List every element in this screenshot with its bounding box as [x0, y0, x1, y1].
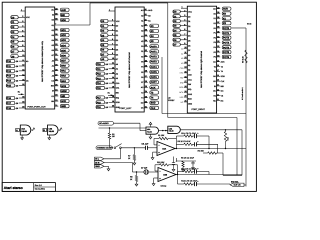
- svg-text:P18: P18: [97, 101, 102, 104]
- connector tag D7 -> U3 pin 9 (left): [101, 52, 115, 56]
- ground below R7: [133, 160, 136, 165]
- connector tag D7 -> U1 pin 9 (left): [11, 49, 25, 53]
- U2 right pin 22 stub label VS: [217, 95, 220, 97]
- input tag for gate U6A: [16, 128, 21, 132]
- svg-text:K3: K3: [141, 30, 143, 33]
- connector tag GCS <- U1 pin 25 (right): [55, 84, 69, 88]
- svg-text:A0: A0: [188, 54, 190, 57]
- svg-text:G6: G6: [51, 49, 53, 52]
- wire U1 audio out pin to net V1 (horizontal): [55, 24, 90, 26]
- svg-text:14: 14: [22, 73, 24, 76]
- connector tag D5 -> U2 pin 7 (left): [173, 33, 187, 37]
- svg-text:POT7: POT7: [151, 81, 158, 84]
- connector tag POT2 <- U3 pin 31 (right): [144, 54, 158, 58]
- connector tag SOD <- U3 pin 22 (right): [144, 100, 158, 104]
- svg-text:POT5: POT5: [151, 71, 158, 74]
- U2 left pin 15 stub label CS1: [180, 70, 188, 74]
- connector tag GRW <- U1 pin 24 (right): [55, 89, 69, 93]
- svg-text:4: 4: [112, 28, 113, 31]
- svg-text:P12: P12: [97, 73, 102, 76]
- capacitor C5 electrolytic (row D): [193, 183, 195, 185]
- connector tag D6 -> U1 pin 8 (left): [11, 44, 25, 48]
- svg-text:P2: P2: [141, 55, 143, 58]
- svg-text:19: 19: [22, 101, 24, 104]
- op-amp U4B: [158, 168, 176, 182]
- svg-text:40: 40: [145, 8, 147, 11]
- connector tag POT1 <- U2 pin 35 (right): [217, 31, 231, 35]
- svg-text:18: 18: [22, 96, 24, 99]
- junction dot U4A output: [176, 148, 177, 149]
- page border frame: [2, 2, 256, 191]
- wire net AUDIO-IN top run y=3: [90, 2, 168, 4]
- svg-text:STEREO ON-OFF: STEREO ON-OFF: [97, 147, 113, 150]
- svg-text:T4: T4: [141, 96, 143, 99]
- svg-text:4: 4: [184, 19, 185, 22]
- connector tag D4 -> U3 pin 6 (left): [101, 38, 115, 42]
- connector tag POT0 <- U3 pin 33 (right): [144, 44, 158, 48]
- svg-text:R4 30K: R4 30K: [198, 150, 205, 153]
- connector tag AUD <- U1 pin 40 (right): [55, 8, 69, 12]
- connector tag D5 -> U3 pin 7 (left): [101, 43, 115, 47]
- power arrow above gate U5A: [149, 122, 152, 127]
- svg-text:P13: P13: [7, 75, 12, 78]
- svg-text:IN R: IN R: [95, 161, 100, 164]
- resistor R12 (row D): [178, 183, 184, 185]
- svg-text:35: 35: [217, 31, 219, 34]
- row C feed from output node: [177, 172, 179, 175]
- svg-text:P17: P17: [7, 102, 12, 105]
- svg-text:01.01.2001: 01.01.2001: [35, 188, 46, 191]
- svg-text:14: 14: [185, 66, 187, 69]
- wire switch to capacitor C6: [121, 147, 145, 149]
- IC U2 body (POKEY stereo right channel): [187, 6, 216, 113]
- connector tag D6 -> U3 pin 8 (left): [101, 47, 115, 51]
- resistor R8 shunt (vertical): [136, 172, 138, 176]
- svg-text:P6: P6: [141, 76, 143, 79]
- svg-text:POT0: POT0: [151, 45, 158, 48]
- title block inner divider: [34, 186, 56, 188]
- wire C7 to op-amp U4B: [132, 171, 143, 173]
- svg-text:16: 16: [22, 83, 24, 86]
- U2 right pin 23 stub label OC: [217, 90, 220, 92]
- AND gate U6A: [20, 125, 31, 135]
- svg-text:33: 33: [217, 40, 219, 43]
- svg-text:P0: P0: [141, 45, 143, 48]
- U2 left pin 14 stub label CS0: [180, 66, 188, 70]
- junction dot at R8 tap: [136, 171, 137, 172]
- output connector tag ESD BAL: [230, 180, 244, 186]
- connector tag POT1 <- U3 pin 32 (right): [144, 49, 158, 53]
- connector tag D0 -> U2 pin 2 (left): [173, 9, 187, 13]
- connector tag P15 -> U1 pin 16 (left): [6, 83, 25, 87]
- svg-text:PORT_LEFT: PORT_LEFT: [120, 107, 133, 110]
- wire net AUDIO-IN vertical riser at x=90: [89, 3, 91, 25]
- connector tag D6 -> U2 pin 8 (left): [173, 38, 187, 42]
- svg-text:18: 18: [185, 85, 187, 88]
- svg-text:11: 11: [22, 59, 24, 62]
- svg-text:16: 16: [185, 75, 187, 78]
- U2 left pin 13 stub label A3: [181, 61, 187, 65]
- title block divider: [33, 183, 35, 192]
- connector tag P14 -> U1 pin 15 (left): [6, 78, 25, 82]
- svg-text:P15: P15: [7, 84, 12, 87]
- resistor R6 (vertical) with ground: [182, 161, 184, 167]
- svg-text:23: 23: [217, 88, 219, 91]
- connector tag D1 -> U1 pin 3 (left): [11, 20, 25, 24]
- connector tag POT4 <- U2 pin 32 (right): [217, 45, 231, 49]
- svg-text:GA1: GA1: [61, 70, 66, 73]
- wire gate U5A output to gate U5B: [159, 130, 168, 132]
- svg-text:5: 5: [184, 23, 185, 26]
- resistor R7 shunt (vertical): [133, 148, 135, 155]
- svg-text:21: 21: [55, 104, 57, 107]
- connector tag POT3 <- U2 pin 33 (right): [217, 40, 231, 44]
- connector tag K0 <- U2 pin 39 (right): [217, 11, 231, 15]
- svg-text:POT3: POT3: [223, 41, 230, 44]
- connector tag T2 <- U3 pin 24 (right): [144, 90, 158, 94]
- svg-text:GD2: GD2: [61, 34, 66, 37]
- svg-text:74L08: 74L08: [49, 130, 54, 133]
- svg-text:20: 20: [22, 106, 24, 109]
- U2 right pin 24 stub label BID: [217, 85, 220, 87]
- svg-text:3: 3: [112, 23, 113, 26]
- svg-text:8: 8: [112, 47, 113, 50]
- svg-text:26: 26: [217, 74, 219, 77]
- svg-text:1: 1: [21, 8, 22, 11]
- op-amp U4B plus input ground: [154, 177, 158, 179]
- capacitor C7 electrolytic (series into U4B): [144, 170, 149, 175]
- connector tag D1 -> U3 pin 3 (left): [101, 23, 115, 27]
- svg-text:74L08: 74L08: [147, 130, 152, 133]
- svg-text:39: 39: [145, 13, 147, 16]
- row D feed from output node: [177, 175, 179, 185]
- svg-text:ESD BAL: ESD BAL: [231, 180, 239, 183]
- switch S1 contact circles: [114, 147, 116, 149]
- svg-text:P1: P1: [214, 32, 216, 35]
- resistor R13 vertical (gate B out to output bus): [225, 130, 227, 132]
- connector tag P15 -> U3 pin 16 (left): [96, 86, 115, 90]
- row A wire from output node up: [175, 136, 177, 139]
- svg-text:SOD: SOD: [221, 75, 226, 78]
- resistor R3 (row A): [176, 135, 183, 137]
- connector tag D4 -> U1 pin 6 (left): [11, 34, 25, 38]
- junction dot on R2 net: [109, 127, 110, 128]
- svg-text:RW: RW: [188, 83, 191, 86]
- svg-text:CS0: CS0: [180, 67, 184, 70]
- row B wire from minus input node: [153, 144, 155, 146]
- svg-text:A0: A0: [181, 47, 183, 50]
- svg-text:26: 26: [55, 78, 57, 81]
- svg-text:GA2: GA2: [61, 75, 66, 78]
- svg-text:D6: D6: [116, 53, 118, 56]
- svg-text:A3: A3: [52, 75, 54, 78]
- svg-text:POT4: POT4: [151, 66, 158, 69]
- svg-text:RW: RW: [180, 77, 183, 80]
- svg-text:13: 13: [112, 71, 114, 74]
- connector tag AUD <- U2 pin 40 (right): [217, 6, 231, 10]
- svg-text:PORT_RIGHT: PORT_RIGHT: [192, 108, 206, 111]
- svg-text:P14: P14: [7, 80, 12, 83]
- svg-text:T4: T4: [221, 70, 223, 73]
- svg-text:SOD: SOD: [188, 93, 193, 96]
- U2 left pin 16 stub label RW: [180, 75, 187, 79]
- svg-text:CS0: CS0: [116, 82, 120, 85]
- svg-text:30: 30: [217, 55, 219, 58]
- svg-text:POT2: POT2: [223, 37, 230, 40]
- wire IN R to stage 2: [104, 162, 132, 164]
- svg-text:GD7: GD7: [61, 60, 66, 63]
- connector tag K4 <- U3 pin 35 (right): [144, 34, 158, 38]
- svg-text:POT1: POT1: [223, 32, 230, 35]
- svg-text:GIR: GIR: [61, 95, 65, 98]
- svg-text:Atari POKEY chip stereo right: Atari POKEY chip stereo right channel: [200, 50, 203, 88]
- AND gate U5A: [146, 127, 159, 134]
- svg-text:30: 30: [55, 58, 57, 61]
- svg-text:U4B: U4B: [163, 174, 168, 177]
- svg-text:A2: A2: [181, 57, 183, 60]
- svg-text:ACK: ACK: [151, 86, 156, 89]
- title block frame: [2, 183, 55, 192]
- bias row feed wire: [176, 160, 196, 162]
- capacitor C3 electrolytic (row B): [193, 143, 195, 145]
- svg-text:K0: K0: [214, 12, 216, 15]
- svg-text:36: 36: [217, 26, 219, 29]
- svg-text:40: 40: [217, 6, 219, 9]
- svg-text:CS1: CS1: [116, 87, 120, 90]
- connector tag P18 -> U3 pin 19 (left): [96, 100, 115, 104]
- svg-text:24: 24: [55, 89, 57, 92]
- connector tag POT4 <- U3 pin 29 (right): [144, 65, 158, 69]
- svg-text:G4: G4: [51, 39, 53, 42]
- svg-text:12: 12: [22, 64, 24, 67]
- svg-text:20: 20: [112, 105, 114, 108]
- svg-text:A0: A0: [26, 60, 28, 63]
- arrow mark into U1 left edge: [21, 94, 25, 96]
- connector tag GN2 <- U1 pin 21 (right): [55, 104, 69, 108]
- svg-text:17: 17: [185, 80, 187, 83]
- op-amp U4A: [157, 142, 175, 156]
- U2 right pin 21 stub label NC: [217, 100, 220, 102]
- svg-text:5: 5: [22, 30, 23, 33]
- connector tag GA2 <- U1 pin 27 (right): [55, 73, 69, 77]
- svg-text:36: 36: [145, 29, 147, 32]
- connector tag GD2 <- U1 pin 35 (right): [55, 33, 69, 37]
- svg-text:20: 20: [185, 95, 187, 98]
- svg-text:P1: P1: [141, 50, 143, 53]
- connector tag POT0 <- U2 pin 36 (right): [217, 26, 231, 30]
- svg-text:P14: P14: [97, 82, 102, 85]
- connector tag GD6 <- U1 pin 31 (right): [55, 53, 69, 57]
- ground below gate U6A: [21, 135, 24, 140]
- svg-text:9: 9: [184, 42, 185, 45]
- svg-text:4: 4: [22, 25, 23, 28]
- connector tag K2 <- U3 pin 37 (right): [144, 23, 158, 27]
- svg-text:74L08: 74L08: [21, 130, 26, 133]
- connector tag P19 -> U3 pin 20 (left): [96, 105, 115, 109]
- svg-text:P4: P4: [214, 46, 216, 49]
- svg-text:A1: A1: [188, 59, 190, 62]
- wire gate U5B output to bus x=242: [181, 129, 243, 131]
- output mark of gate U6A: [31, 128, 35, 131]
- svg-text:24: 24: [145, 90, 147, 93]
- svg-text:G5: G5: [51, 44, 53, 47]
- capacitor C2 (vertical) with ground: [192, 161, 194, 162]
- svg-text:21: 21: [145, 106, 147, 109]
- svg-text:D3: D3: [188, 30, 190, 33]
- svg-text:34: 34: [145, 39, 147, 42]
- wire fb bus vertical x=223: [222, 153, 224, 175]
- svg-text:23: 23: [145, 95, 147, 98]
- svg-text:Rx: Rx: [18, 90, 20, 93]
- svg-text:SOD: SOD: [151, 102, 156, 105]
- IC U1 body (POKEY carrier, main board socket): [25, 7, 55, 109]
- resistor R2 (vertical): [108, 133, 110, 139]
- wire pill to gate U5A input: [114, 122, 141, 124]
- IC U3 body (POKEY stereo left channel): [115, 7, 144, 112]
- connector tag POT5 <- U2 pin 31 (right): [217, 50, 231, 54]
- svg-text:GCK: GCK: [61, 100, 66, 103]
- svg-text:K2: K2: [214, 22, 216, 25]
- AND gate U5B: [168, 126, 181, 133]
- svg-text:A2: A2: [52, 69, 54, 72]
- capacitor C1 electrolytic (row A): [193, 135, 195, 137]
- connector tag K1 <- U2 pin 38 (right): [217, 16, 231, 20]
- svg-text:38: 38: [55, 18, 57, 21]
- svg-text:D4: D4: [116, 44, 118, 47]
- svg-text:POT6: POT6: [223, 56, 230, 59]
- input connector arrow GND IN: [95, 165, 105, 169]
- svg-text:7: 7: [112, 43, 113, 46]
- connector tag P14 -> U3 pin 15 (left): [96, 81, 115, 85]
- svg-text:A2: A2: [116, 72, 118, 75]
- connector tag P10 -> U1 pin 11 (left): [6, 59, 25, 63]
- svg-text:35: 35: [145, 34, 147, 37]
- svg-text:GND: GND: [95, 165, 100, 168]
- svg-text:13: 13: [185, 61, 187, 64]
- wire IN L to switch node: [104, 158, 121, 160]
- svg-text:GD4: GD4: [61, 44, 66, 47]
- connector tag D3 -> U3 pin 5 (left): [101, 33, 115, 37]
- U2 left pin 20 stub label VSS: [180, 95, 188, 99]
- svg-text:POT4: POT4: [223, 46, 230, 49]
- connector tag POT3 <- U3 pin 30 (right): [144, 59, 158, 63]
- connector tag D4 -> U2 pin 6 (left): [173, 28, 187, 32]
- connector tag P13 -> U1 pin 14 (left): [6, 73, 25, 77]
- input tag for gate U6B: [43, 128, 48, 132]
- svg-text:23: 23: [55, 94, 57, 97]
- wire loop top y=113.5: [162, 113, 246, 115]
- svg-text:Rx: Rx: [108, 91, 110, 94]
- svg-text:R1 10K: R1 10K: [158, 134, 165, 137]
- wire net AUDIO-IN run y=117.5 to right bus: [168, 117, 237, 119]
- resistor R9 (series, vertical on V246): [245, 50, 247, 63]
- junction dot at R7 tap: [134, 147, 135, 148]
- svg-text:P6: P6: [214, 56, 216, 59]
- U2 right pin 25 stub label CLK: [217, 80, 220, 82]
- svg-text:SOD: SOD: [116, 101, 121, 104]
- wire top of R2 net y=128: [99, 127, 147, 129]
- connector tag POT2 <- U2 pin 34 (right): [217, 35, 231, 39]
- pill label STEREO ON-OFF: [96, 146, 114, 150]
- connector tag P18 -> U1 pin 20 (left, bottom group): [6, 106, 25, 110]
- U1 pin 1 corner wire (top left): [21, 10, 26, 12]
- svg-text:T4: T4: [214, 70, 216, 73]
- wire right bus V246 vertical from U2 audio tag: [245, 28, 247, 187]
- svg-text:CS1: CS1: [188, 78, 192, 81]
- svg-text:35: 35: [55, 33, 57, 36]
- connector tag P17 -> U3 pin 18 (left): [96, 95, 115, 99]
- connector tag D2 -> U3 pin 4 (left): [101, 28, 115, 32]
- wire R2 bottom to switch wire: [109, 139, 111, 148]
- svg-text:34: 34: [217, 35, 219, 38]
- svg-text:U4A: U4A: [162, 148, 167, 151]
- svg-text:25: 25: [217, 79, 219, 82]
- svg-text:32: 32: [55, 48, 57, 51]
- connector tag P10 -> U3 pin 11 (left): [96, 62, 115, 66]
- svg-text:G1: G1: [51, 24, 53, 27]
- svg-text:D7: D7: [116, 58, 118, 61]
- U2 right pin 26 stub label SOD: [217, 75, 220, 77]
- svg-text:P11: P11: [7, 65, 12, 68]
- connector tag D2 -> U1 pin 4 (left): [11, 25, 25, 29]
- svg-text:38: 38: [145, 18, 147, 21]
- U2 pin 1 corner wire (top left): [181, 7, 187, 9]
- svg-text:15: 15: [112, 81, 114, 84]
- svg-text:P16: P16: [7, 97, 12, 100]
- svg-text:P19: P19: [97, 106, 102, 109]
- wire C6 to op-amp U4A input: [148, 147, 158, 149]
- svg-text:2: 2: [112, 19, 113, 22]
- svg-text:Atari POKEY chip stereo revise: Atari POKEY chip stereo revised pins onl…: [41, 40, 44, 82]
- svg-text:39: 39: [55, 13, 57, 16]
- connector tag POT6 <- U3 pin 27 (right): [144, 75, 158, 79]
- connector tag GD5 <- U1 pin 32 (right): [55, 48, 69, 52]
- svg-text:15: 15: [22, 78, 24, 81]
- svg-text:P10: P10: [97, 63, 102, 66]
- connector tag P11 -> U1 pin 12 (left): [6, 64, 25, 68]
- svg-text:T2: T2: [141, 91, 143, 94]
- wire loop right vertical at x=237: [236, 118, 238, 176]
- ground below gate U6B: [48, 135, 51, 140]
- svg-text:22: 22: [217, 93, 219, 96]
- svg-text:AUD: AUD: [223, 8, 228, 11]
- svg-text:10: 10: [185, 46, 187, 49]
- svg-text:D2: D2: [116, 34, 118, 37]
- svg-text:A0: A0: [52, 59, 54, 62]
- resistor R5 (row B): [176, 143, 183, 145]
- svg-text:P7: P7: [141, 81, 143, 84]
- connector tag K5 <- U3 pin 34 (right): [144, 39, 158, 43]
- svg-text:GC-AUDIO: GC-AUDIO: [99, 122, 109, 125]
- connector tag GD4 <- U1 pin 33 (right): [55, 43, 69, 47]
- wire fb loop bottom y=175.3: [223, 174, 242, 176]
- capacitor C9 electrolytic vertical (bias): [173, 157, 175, 163]
- connector tag D0 -> U3 pin 2 (left): [101, 19, 115, 23]
- connector tag P17 -> U1 pin 19 (left, bottom group): [6, 101, 25, 105]
- svg-text:10: 10: [22, 54, 24, 57]
- svg-text:P3: P3: [214, 41, 216, 44]
- svg-text:22: 22: [55, 99, 57, 102]
- connector tag D5 -> U1 pin 7 (left): [11, 39, 25, 43]
- input connector arrow IN R: [95, 161, 105, 165]
- connector tag POT6 <- U2 pin 30 (right): [217, 55, 231, 59]
- svg-text:IRQ: IRQ: [180, 81, 184, 84]
- svg-text:POT3: POT3: [151, 61, 158, 64]
- connector tag GD7 <- U1 pin 30 (right): [55, 58, 69, 62]
- svg-text:G3: G3: [51, 34, 53, 37]
- svg-text:P10: P10: [7, 60, 12, 63]
- svg-text:POKEY: POKEY: [168, 99, 175, 102]
